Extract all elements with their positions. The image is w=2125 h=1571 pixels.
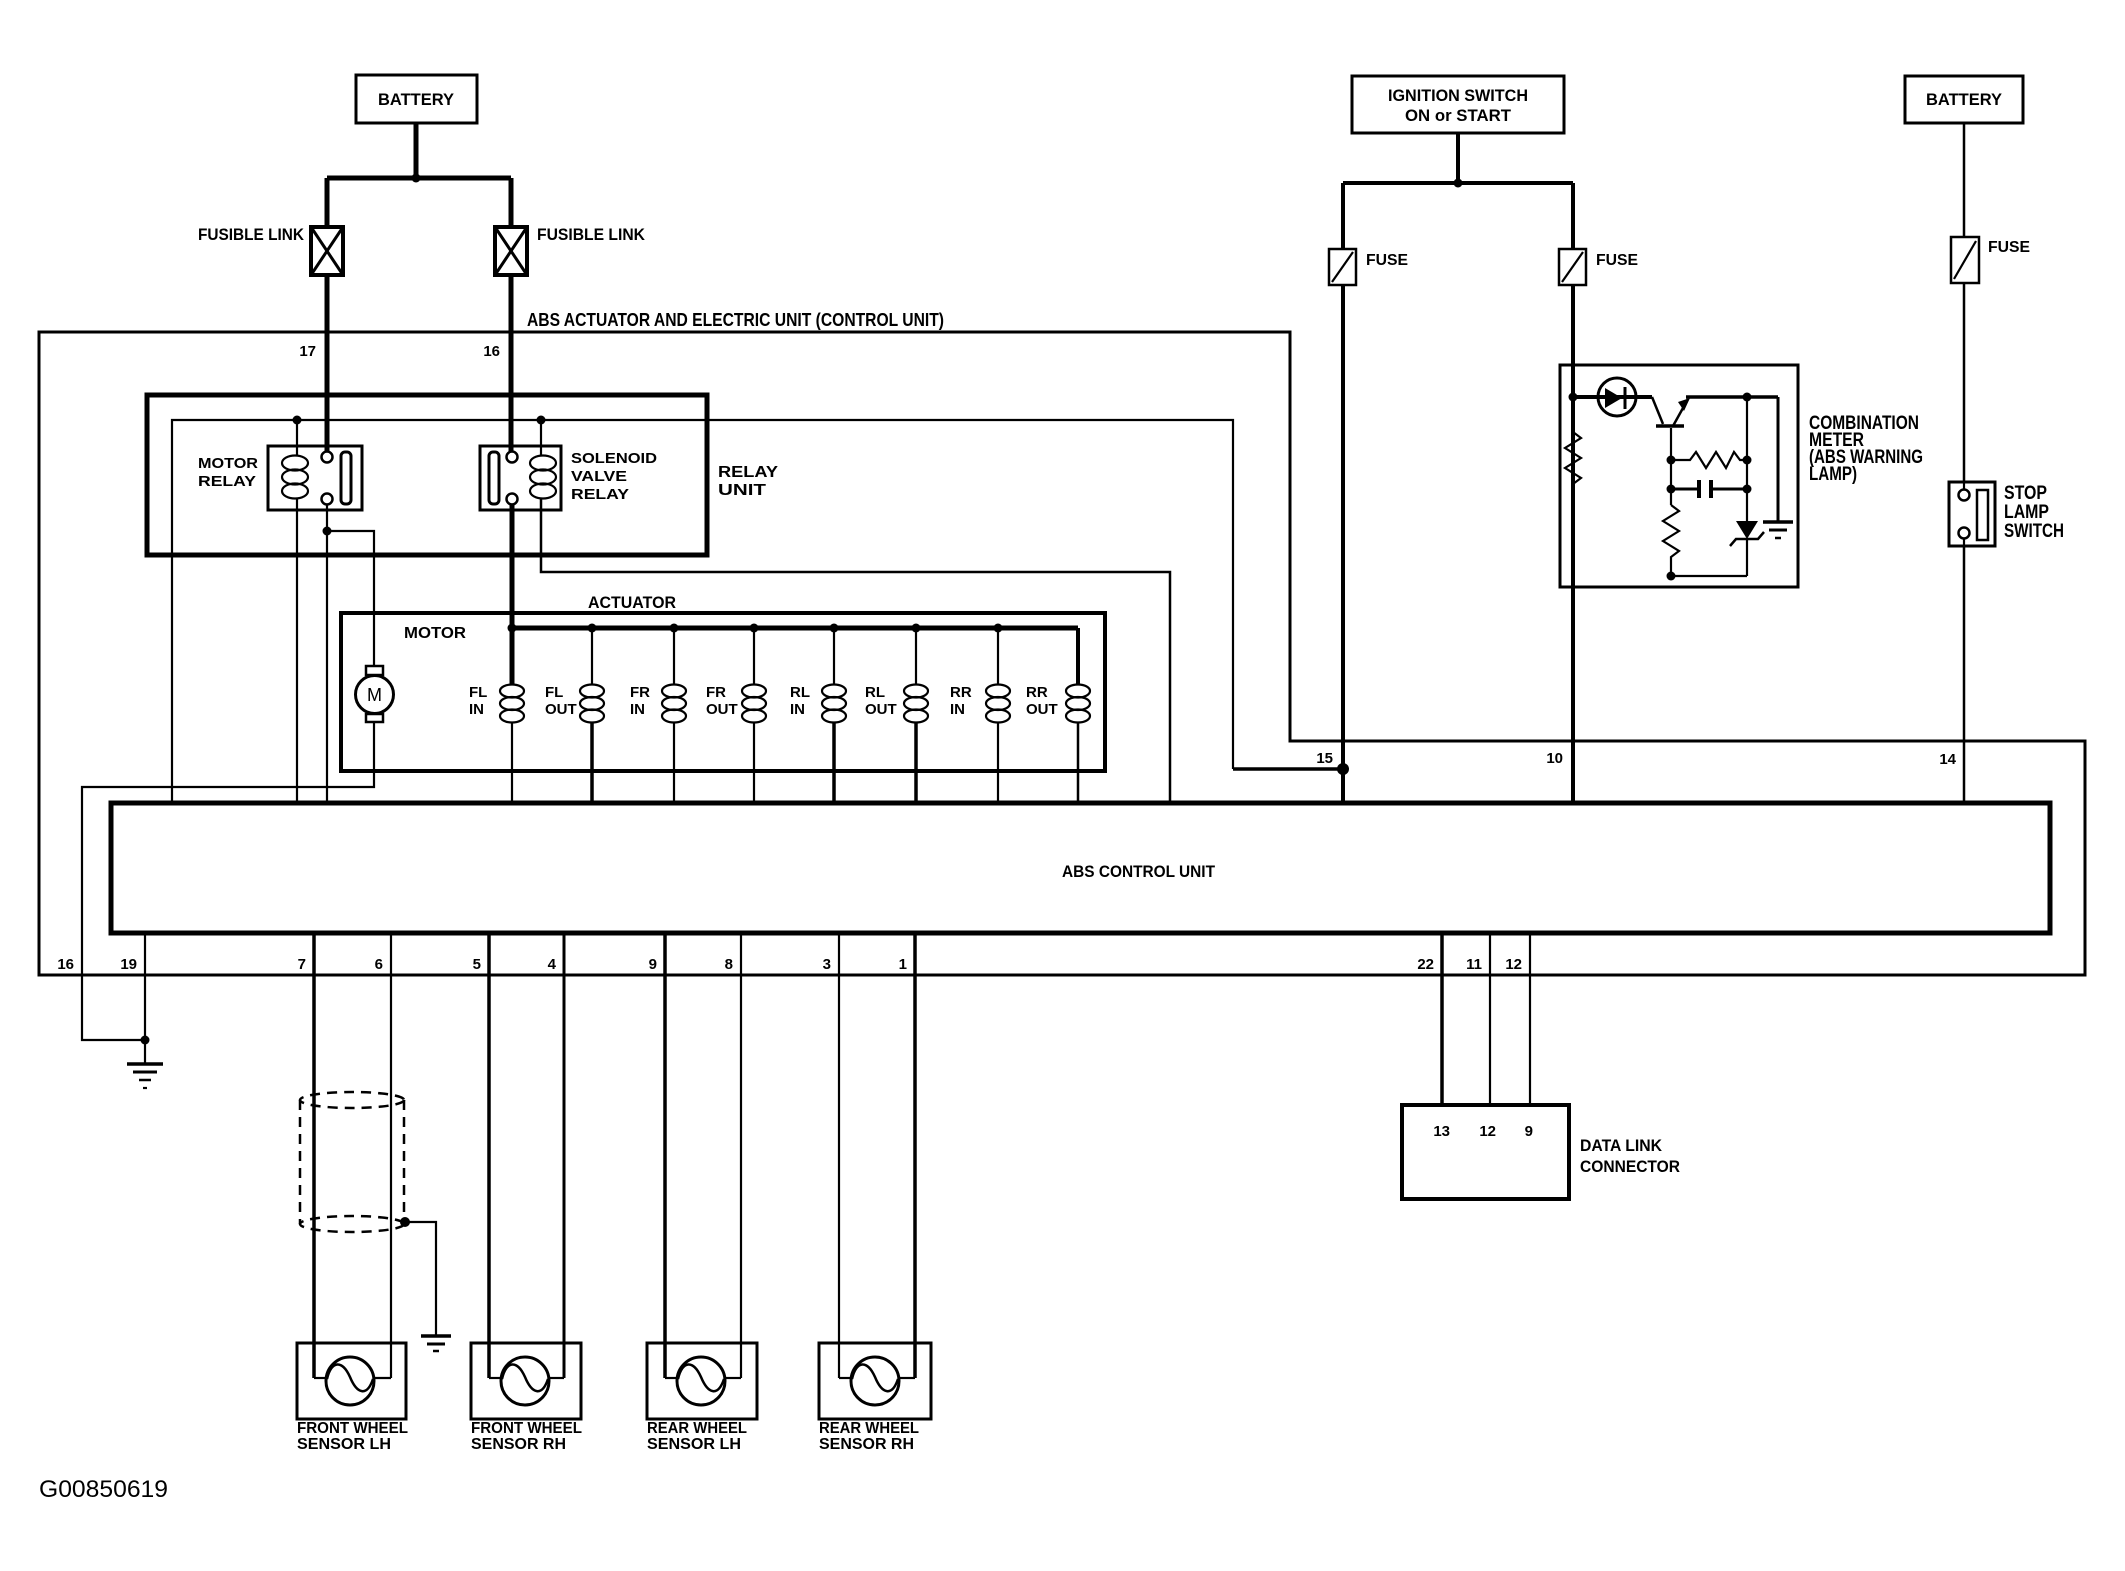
- svg-text:SWITCH: SWITCH: [2004, 521, 2064, 542]
- wire ignition down: [1456, 133, 1460, 183]
- svg-text:VALVE: VALVE: [571, 468, 627, 485]
- svg-text:10: 10: [1546, 750, 1563, 767]
- svg-text:OUT: OUT: [1026, 701, 1058, 718]
- wire fusible link right to solenoid relay pin 16: [509, 274, 514, 452]
- node battery split: [412, 174, 421, 183]
- svg-text:SENSOR LH: SENSOR LH: [297, 1436, 391, 1453]
- node pin 15 junction: [1337, 763, 1349, 775]
- svg-text:16: 16: [57, 956, 74, 973]
- wire pin 3: [838, 933, 840, 1378]
- wire solenoid relay coil to control unit: [541, 498, 1170, 803]
- svg-text:3: 3: [823, 956, 831, 973]
- wire relay coil feed rail (to pin 15): [172, 420, 1233, 803]
- battery B2: [1905, 76, 2023, 123]
- svg-text:9: 9: [1525, 1123, 1533, 1140]
- fusible link FL1: [311, 227, 343, 275]
- wire pin 12: [1529, 933, 1531, 1105]
- svg-text:OUT: OUT: [706, 701, 738, 718]
- svg-text:14: 14: [1939, 751, 1956, 768]
- svg-text:RELAY: RELAY: [571, 486, 629, 503]
- transistor Q1: [1652, 397, 1690, 456]
- wire motor relay coil to control unit: [296, 498, 298, 803]
- wire to fuse F1: [1341, 183, 1345, 249]
- svg-text:LAMP): LAMP): [1809, 464, 1857, 485]
- svg-text:RR: RR: [1026, 684, 1048, 701]
- wire actuator bus: [512, 626, 1078, 631]
- front wheel sensor LH: [297, 1343, 406, 1419]
- node R2 left: [1667, 456, 1676, 465]
- svg-text:11: 11: [1466, 956, 1482, 973]
- svg-text:16: 16: [483, 343, 500, 360]
- wire meter bottom: [1671, 575, 1747, 577]
- svg-text:G00850619: G00850619: [39, 1476, 168, 1503]
- solenoid coil RL IN: [790, 628, 846, 803]
- node bus RL IN: [830, 624, 839, 633]
- svg-text:OUT: OUT: [865, 701, 897, 718]
- svg-text:RL: RL: [790, 684, 810, 701]
- wire fusible link left to motor relay pin 17: [325, 274, 330, 452]
- wire battery B1 down: [414, 123, 419, 178]
- ABS control unit U1: [111, 803, 2050, 933]
- svg-text:IN: IN: [790, 701, 805, 718]
- node bus RL OUT: [912, 624, 921, 633]
- svg-text:15: 15: [1316, 750, 1333, 767]
- combination meter box: [1560, 365, 1798, 587]
- svg-text:MOTOR: MOTOR: [404, 625, 466, 642]
- front wheel sensor RH: [471, 1343, 581, 1419]
- wire to fusible link right: [509, 178, 514, 228]
- wire meter ground branch: [1777, 397, 1780, 522]
- wire motor relay contact down: [326, 505, 328, 803]
- node ground junction: [141, 1036, 150, 1045]
- node meter bottom left: [1667, 572, 1676, 581]
- wire right branch: [1746, 397, 1748, 521]
- svg-text:M: M: [367, 685, 382, 705]
- wire battery bus: [327, 176, 511, 181]
- wire fuse F1 to pin 15: [1341, 285, 1345, 803]
- wire solenoid relay coil top: [540, 420, 542, 456]
- motor relay K1: [268, 446, 362, 510]
- wire motor bottom to ground run: [82, 722, 374, 1040]
- wire lamp feed: [1573, 395, 1652, 399]
- wire pin 4: [563, 933, 566, 1378]
- relay unit box: [147, 395, 707, 555]
- svg-text:FRONT WHEEL: FRONT WHEEL: [471, 1420, 582, 1437]
- rear wheel sensor RH: [819, 1343, 931, 1419]
- svg-text:13: 13: [1433, 1123, 1450, 1140]
- node bus RR IN: [994, 624, 1003, 633]
- svg-text:FUSE: FUSE: [1366, 252, 1408, 269]
- node motor feed: [323, 527, 332, 536]
- resistor R3: [1663, 505, 1679, 576]
- resistor R1: [1565, 432, 1581, 484]
- capacitor C1: [1671, 480, 1747, 498]
- svg-text:FUSIBLE LINK: FUSIBLE LINK: [537, 225, 646, 244]
- svg-text:4: 4: [548, 956, 557, 973]
- solenoid coil RR OUT: [1026, 628, 1090, 803]
- svg-text:6: 6: [375, 956, 383, 973]
- svg-text:OUT: OUT: [545, 701, 577, 718]
- node R2 right: [1743, 456, 1752, 465]
- warning lamp DS1: [1598, 378, 1636, 416]
- node bus FL OUT: [588, 624, 597, 633]
- svg-text:12: 12: [1505, 956, 1522, 973]
- svg-text:SENSOR LH: SENSOR LH: [647, 1436, 741, 1453]
- wire motor relay coil top: [296, 420, 298, 456]
- svg-text:ABS ACTUATOR AND ELECTRIC UNIT: ABS ACTUATOR AND ELECTRIC UNIT (CONTROL …: [527, 310, 944, 330]
- svg-text:5: 5: [473, 956, 481, 973]
- svg-text:CONNECTOR: CONNECTOR: [1580, 1157, 1680, 1176]
- svg-text:1: 1: [899, 956, 907, 973]
- wire to fuse F2: [1571, 183, 1575, 249]
- motor M1: [356, 666, 394, 722]
- svg-text:STOP: STOP: [2004, 483, 2047, 504]
- svg-text:UNIT: UNIT: [718, 482, 766, 499]
- svg-text:BATTERY: BATTERY: [1926, 90, 2003, 109]
- svg-text:RL: RL: [865, 684, 885, 701]
- svg-text:IN: IN: [950, 701, 965, 718]
- stop lamp switch SW2: [1949, 482, 1995, 546]
- node C1 left: [1667, 485, 1676, 494]
- fuse F3: [1951, 237, 1979, 283]
- svg-text:RELAY: RELAY: [198, 473, 256, 490]
- wire solenoid relay contact to actuator bus: [510, 505, 515, 628]
- svg-text:7: 7: [298, 956, 306, 973]
- wire pin 1: [913, 933, 917, 1378]
- node ignition split: [1454, 179, 1463, 188]
- svg-text:FUSE: FUSE: [1596, 252, 1638, 269]
- actuator box: [341, 613, 1105, 771]
- svg-text:FL: FL: [469, 684, 487, 701]
- ignition switch SW1: [1352, 76, 1564, 133]
- ground G2: [421, 1336, 451, 1351]
- resistor R2: [1671, 452, 1747, 468]
- svg-text:9: 9: [649, 956, 657, 973]
- wire ignition bus: [1343, 181, 1573, 185]
- svg-text:FR: FR: [630, 684, 650, 701]
- thyristor D1: [1730, 521, 1764, 576]
- svg-text:BATTERY: BATTERY: [378, 90, 455, 109]
- wire stop lamp switch to pin 14: [1963, 546, 1966, 803]
- wire pin 5: [487, 933, 491, 1378]
- wire pin 8: [740, 933, 742, 1378]
- wire pin 11: [1489, 933, 1491, 1105]
- solenoid coil RL OUT: [865, 628, 928, 803]
- svg-text:17: 17: [299, 343, 316, 360]
- node coil rail / solenoid relay coil: [537, 416, 546, 425]
- svg-text:22: 22: [1417, 956, 1434, 973]
- ground G1: [127, 1040, 163, 1088]
- solenoid coil FR IN: [630, 628, 686, 803]
- wire fuse F3 to stop lamp switch: [1963, 283, 1966, 482]
- svg-text:FL: FL: [545, 684, 563, 701]
- svg-text:RR: RR: [950, 684, 972, 701]
- wire emitter branch: [1670, 456, 1672, 505]
- fusible link FL2: [495, 227, 527, 275]
- node bus FR IN: [670, 624, 679, 633]
- svg-text:LAMP: LAMP: [2004, 502, 2049, 523]
- svg-text:IN: IN: [469, 701, 484, 718]
- solenoid coil FL OUT: [545, 628, 604, 803]
- node bus FR OUT: [750, 624, 759, 633]
- svg-text:DATA LINK: DATA LINK: [1580, 1136, 1663, 1155]
- battery B1: [356, 75, 477, 123]
- wire pin 6: [390, 933, 392, 1378]
- svg-text:ON or START: ON or START: [1405, 106, 1512, 125]
- node coil rail / motor relay coil: [293, 416, 302, 425]
- wire to fusible link left: [325, 178, 330, 228]
- shield cylinder front LH sensor cable: [300, 1092, 404, 1232]
- solenoid valve relay K2: [480, 446, 561, 510]
- solenoid coil FL IN: [469, 628, 524, 803]
- data link connector J1: [1402, 1105, 1569, 1199]
- svg-text:FR: FR: [706, 684, 726, 701]
- wire pin 9: [663, 933, 667, 1378]
- svg-text:SENSOR RH: SENSOR RH: [819, 1436, 914, 1453]
- node bus FL IN: [508, 624, 517, 633]
- svg-text:8: 8: [725, 956, 733, 973]
- solenoid coil RR IN: [950, 628, 1010, 803]
- ABS actuator and electric unit outer box: [39, 332, 2085, 975]
- svg-text:12: 12: [1479, 1123, 1496, 1140]
- svg-text:19: 19: [120, 956, 137, 973]
- svg-text:REAR WHEEL: REAR WHEEL: [647, 1420, 747, 1437]
- svg-text:RELAY: RELAY: [718, 464, 778, 481]
- svg-text:FUSE: FUSE: [1988, 239, 2030, 256]
- wire shield to ground: [400, 1217, 436, 1336]
- wire collector rail: [1686, 395, 1778, 399]
- node rail right: [1743, 393, 1752, 402]
- svg-text:SOLENOID: SOLENOID: [571, 450, 657, 467]
- node meter feed: [1569, 393, 1578, 402]
- wire pin 15 link: [1233, 767, 1343, 771]
- solenoid coil FR OUT: [706, 628, 766, 803]
- node C1 right: [1743, 485, 1752, 494]
- svg-text:IGNITION SWITCH: IGNITION SWITCH: [1388, 86, 1528, 105]
- wire pin 19 to ground: [144, 933, 146, 1040]
- svg-text:MOTOR: MOTOR: [198, 455, 258, 472]
- wire pin 7: [312, 933, 316, 1378]
- svg-text:ACTUATOR: ACTUATOR: [588, 593, 676, 612]
- fuse F2: [1559, 249, 1586, 285]
- fuse F1: [1329, 249, 1356, 285]
- ground G3: [1763, 522, 1793, 538]
- svg-text:SENSOR RH: SENSOR RH: [471, 1436, 566, 1453]
- svg-text:FRONT WHEEL: FRONT WHEEL: [297, 1420, 408, 1437]
- wire motor feed jog: [327, 531, 374, 666]
- wire fuse F2 to combination meter and pin 10: [1571, 285, 1575, 803]
- svg-text:IN: IN: [630, 701, 645, 718]
- rear wheel sensor LH: [647, 1343, 757, 1419]
- svg-text:FUSIBLE LINK: FUSIBLE LINK: [198, 225, 305, 244]
- wire battery B2 down: [1963, 123, 1966, 237]
- svg-text:ABS CONTROL UNIT: ABS CONTROL UNIT: [1062, 862, 1216, 881]
- wire pin 22: [1440, 933, 1444, 1105]
- svg-text:REAR WHEEL: REAR WHEEL: [819, 1420, 919, 1437]
